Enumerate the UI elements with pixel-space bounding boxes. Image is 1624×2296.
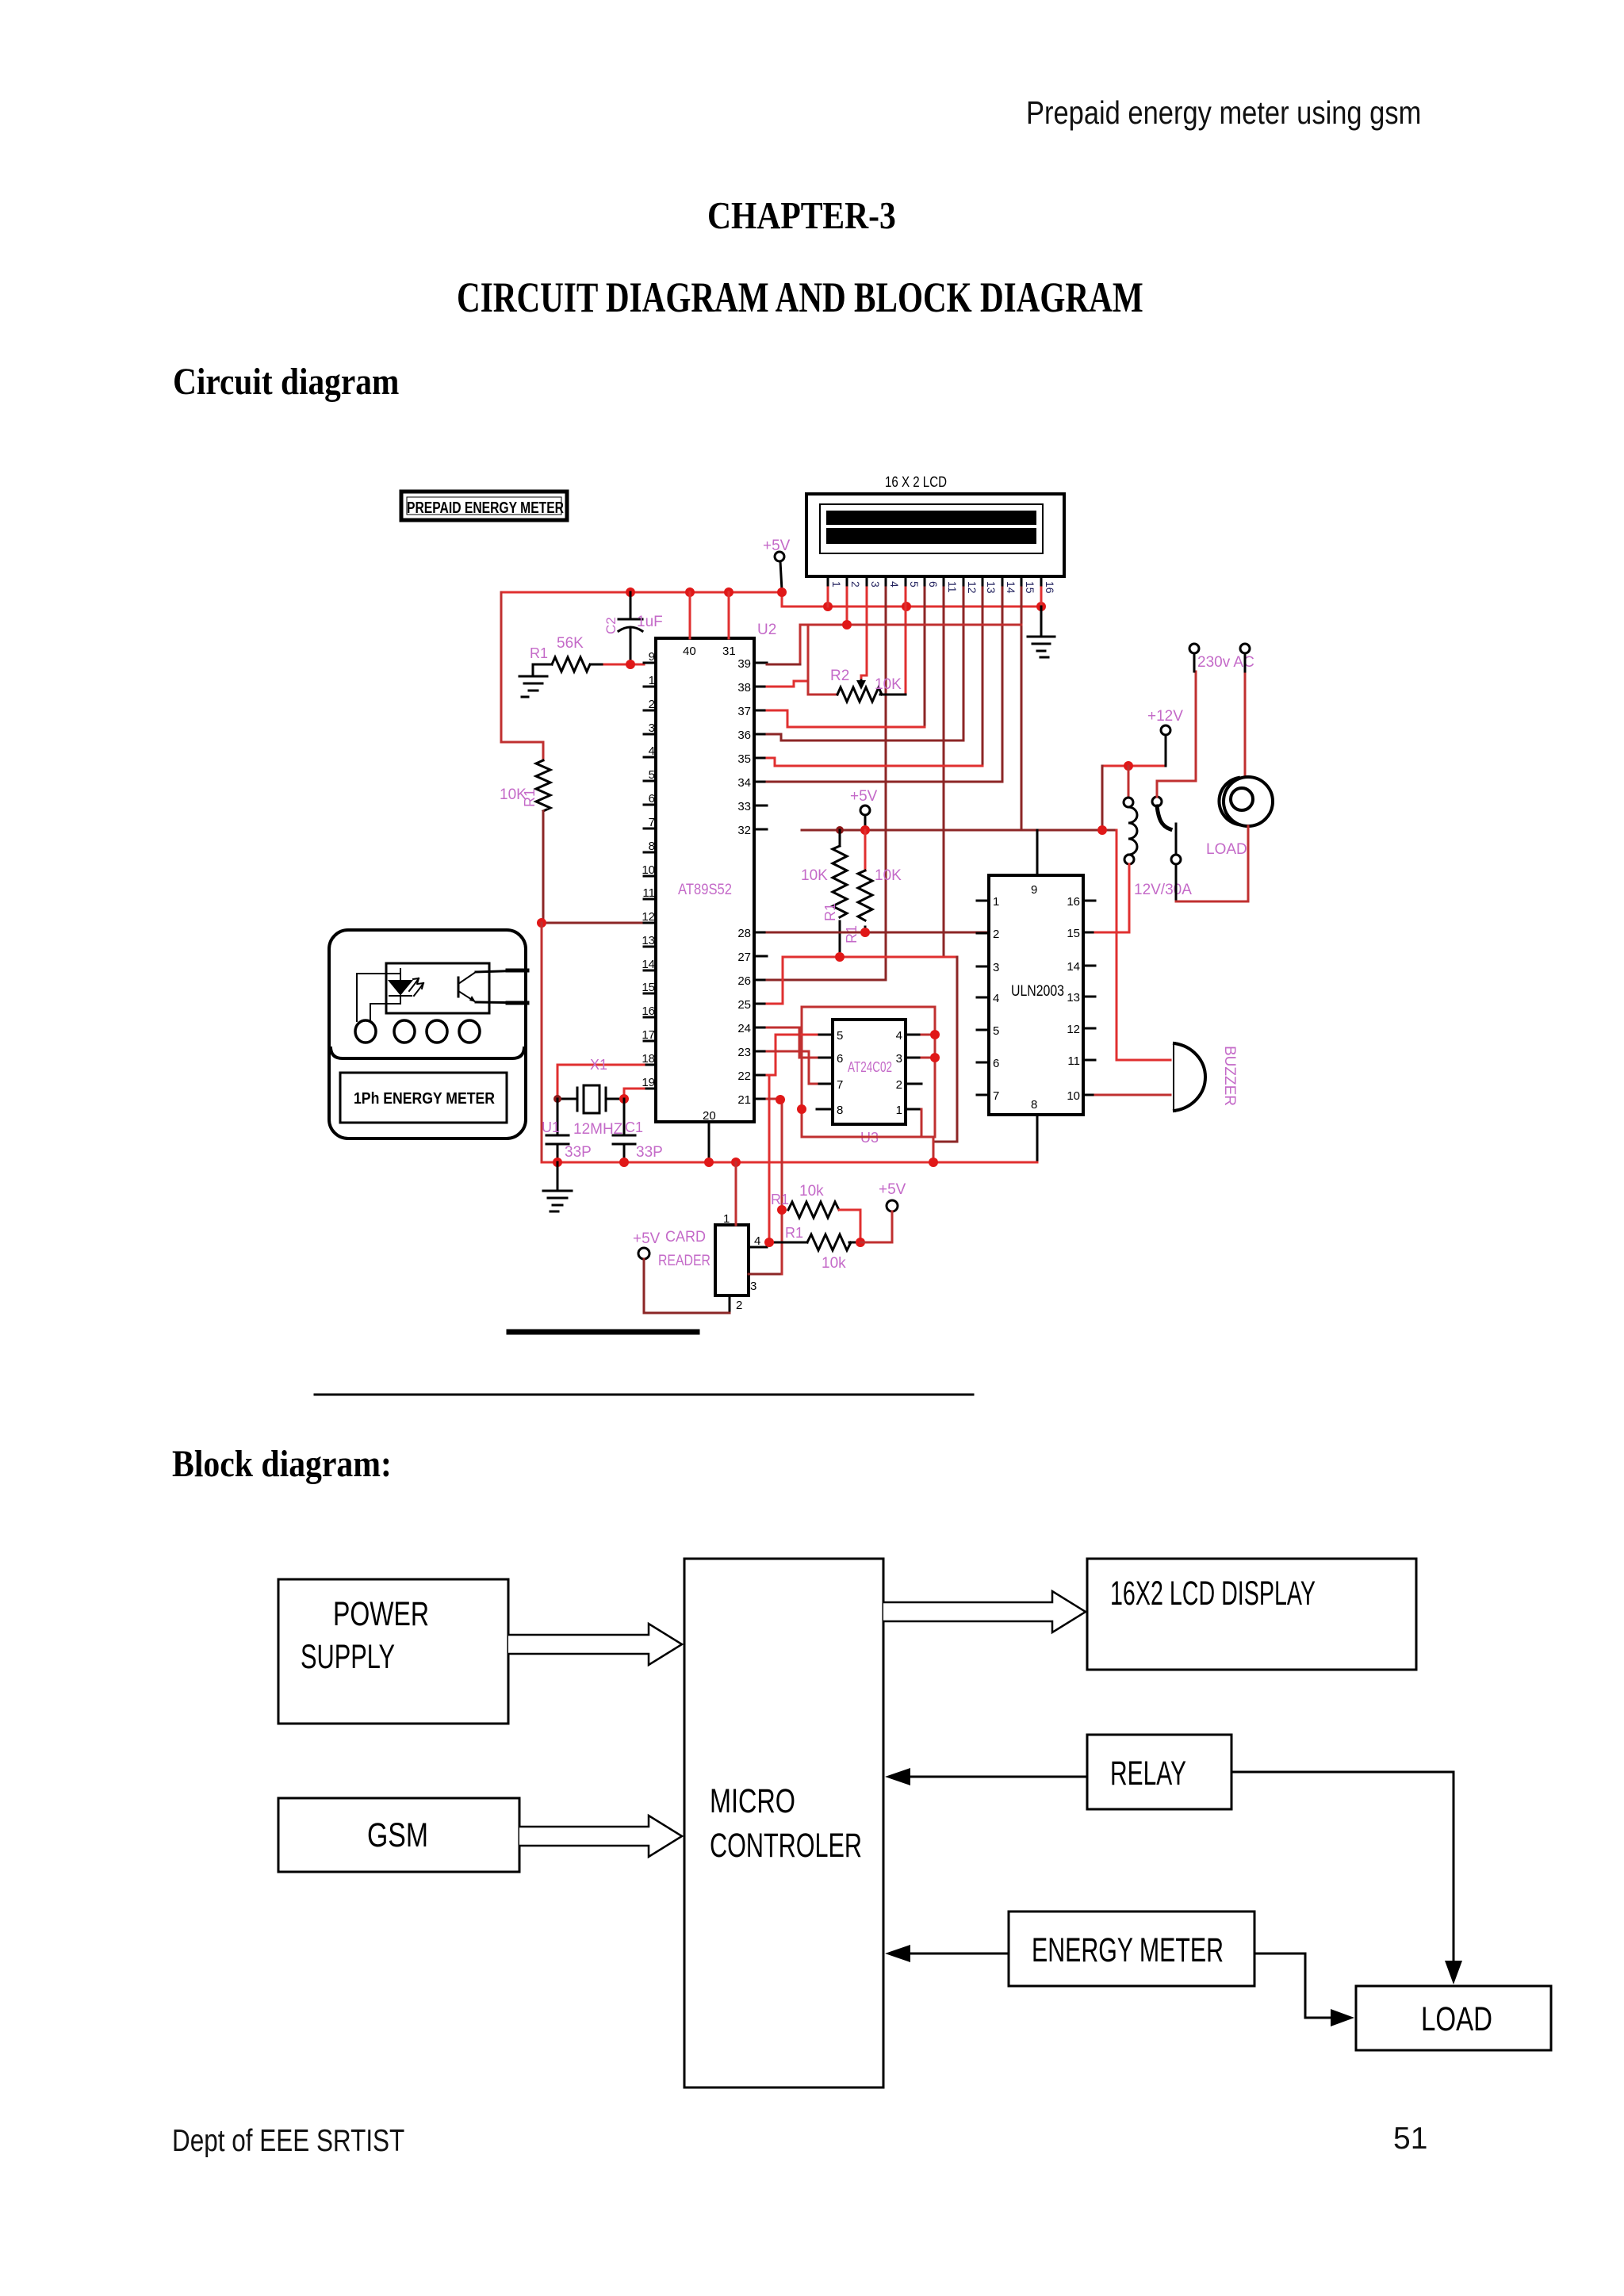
svg-text:24: 24 bbox=[737, 1022, 751, 1035]
ULN pin9 stub bbox=[1036, 830, 1039, 875]
wire lcd pin6 column bbox=[924, 587, 926, 727]
svg-text:14: 14 bbox=[1067, 960, 1080, 974]
16x2 LCD display U3 bbox=[806, 474, 1064, 576]
svg-text:LOAD: LOAD bbox=[1421, 2000, 1492, 2038]
svg-text:X1: X1 bbox=[590, 1057, 607, 1073]
svg-text:9: 9 bbox=[649, 650, 655, 664]
node dot bus3 pin2 bbox=[842, 620, 852, 629]
node dot cap/R1 junction bbox=[626, 660, 635, 669]
svg-text:ULN2003: ULN2003 bbox=[1011, 983, 1064, 1000]
wire pin38 path bbox=[767, 681, 808, 687]
node dots eeprom loop bbox=[930, 1030, 940, 1039]
svg-text:+5V: +5V bbox=[633, 1230, 661, 1247]
svg-text:2: 2 bbox=[649, 698, 655, 711]
svg-text:15: 15 bbox=[1024, 581, 1036, 594]
svg-text:R1: R1 bbox=[822, 903, 838, 921]
svg-text:6: 6 bbox=[993, 1057, 999, 1070]
wire ground bus bottom bbox=[542, 1161, 1037, 1164]
svg-text:1uF: 1uF bbox=[637, 614, 663, 630]
AT24C02 right pin stubs bbox=[906, 1035, 921, 1109]
AT24C02 left pin stubs bbox=[817, 1035, 833, 1109]
wire eeprom row drop bbox=[935, 957, 957, 1142]
ground under 56K bbox=[519, 664, 547, 697]
svg-text:23: 23 bbox=[737, 1046, 751, 1059]
LCD pin stubs and numbers bbox=[828, 576, 1041, 587]
resistor 10K pullup left bbox=[839, 830, 841, 846]
svg-text:8: 8 bbox=[649, 840, 655, 853]
svg-text:1: 1 bbox=[830, 581, 843, 587]
svg-text:+5V: +5V bbox=[850, 788, 878, 805]
svg-text:14: 14 bbox=[642, 958, 655, 971]
svg-text:1: 1 bbox=[993, 895, 999, 909]
svg-text:POWER: POWER bbox=[333, 1595, 429, 1633]
svg-text:15: 15 bbox=[1067, 927, 1080, 940]
resistor R1 10k upper bbox=[788, 1202, 839, 1218]
block diagram heading bbox=[172, 1442, 392, 1486]
svg-text:6: 6 bbox=[649, 792, 655, 806]
svg-text:38: 38 bbox=[737, 681, 751, 695]
BLOCK DIAGRAM bbox=[278, 1559, 1551, 2087]
ground under lcd pin16 bbox=[1028, 607, 1055, 657]
separator thin line bbox=[315, 1394, 973, 1396]
svg-text:5: 5 bbox=[908, 581, 921, 587]
svg-text:CARD: CARD bbox=[665, 1229, 706, 1246]
chapter heading bbox=[707, 193, 896, 238]
svg-text:RELAY: RELAY bbox=[1110, 1755, 1186, 1793]
svg-text:34: 34 bbox=[737, 776, 751, 790]
svg-text:R2: R2 bbox=[830, 668, 849, 684]
svg-text:2: 2 bbox=[849, 581, 862, 587]
svg-text:AT24C02: AT24C02 bbox=[848, 1059, 892, 1075]
wire lcd pin1 column bbox=[827, 587, 829, 607]
wire upper 10k to junction bbox=[839, 1210, 860, 1242]
svg-text:16: 16 bbox=[1044, 581, 1056, 594]
svg-text:11: 11 bbox=[1067, 1054, 1080, 1068]
svg-text:3: 3 bbox=[869, 581, 882, 587]
node dot upper 10k left bbox=[777, 1205, 787, 1215]
svg-text:10K: 10K bbox=[875, 867, 902, 884]
svg-text:9: 9 bbox=[1031, 883, 1037, 897]
node junction dots on bus1 bbox=[626, 587, 787, 597]
svg-text:MICRO: MICRO bbox=[710, 1782, 795, 1820]
+5V terminal near LCD bbox=[763, 538, 791, 590]
wire eeprom loop rectangle bbox=[802, 1007, 935, 1137]
wire eeprom pin1 link bbox=[921, 1109, 923, 1137]
svg-text:2: 2 bbox=[736, 1299, 742, 1312]
svg-text:4: 4 bbox=[896, 1029, 902, 1043]
wire lcd pin11 column bbox=[943, 587, 945, 957]
svg-text:1: 1 bbox=[723, 1212, 730, 1226]
svg-text:13: 13 bbox=[1067, 991, 1080, 1004]
wire relay feed drop bbox=[1101, 766, 1104, 830]
node junction dots on bus2 bbox=[823, 602, 1046, 611]
svg-text:2: 2 bbox=[993, 928, 999, 941]
svg-text:6: 6 bbox=[927, 581, 940, 587]
svg-text:R1: R1 bbox=[522, 789, 538, 807]
capacitor C1 33P right bbox=[613, 1099, 635, 1162]
svg-text:37: 37 bbox=[737, 705, 751, 718]
svg-text:10K: 10K bbox=[875, 676, 902, 693]
microcontroller U2 AT89S52 body bbox=[656, 638, 754, 1122]
wire lcd pin3 column to pot wiper bbox=[861, 587, 867, 680]
wire +5V to 10k junction bbox=[860, 1211, 892, 1242]
wire eeprom pin5 to pin22 bbox=[767, 1035, 817, 1075]
wire +5V row to ULN pin9 bbox=[802, 829, 1116, 832]
wire pin25 riser bbox=[767, 957, 783, 1004]
wire bus3 row bbox=[800, 625, 1021, 664]
svg-text:8: 8 bbox=[837, 1104, 843, 1117]
relay coil bbox=[1124, 766, 1137, 864]
svg-text:16X2 LCD DISPLAY: 16X2 LCD DISPLAY bbox=[1110, 1575, 1316, 1613]
svg-text:7: 7 bbox=[993, 1089, 999, 1103]
wire buzzer feed drop bbox=[1116, 830, 1170, 1060]
svg-text:11: 11 bbox=[642, 886, 655, 900]
relay switch bbox=[1152, 797, 1181, 901]
relay box bbox=[1087, 1735, 1231, 1809]
svg-text:R1: R1 bbox=[785, 1225, 803, 1241]
optocoupler led bbox=[389, 969, 412, 1004]
resistor R1 10k lower bbox=[807, 1234, 851, 1250]
arrow relay to load bbox=[1231, 1772, 1454, 1963]
optocoupler transistor bbox=[458, 972, 476, 1002]
svg-text:19: 19 bbox=[642, 1076, 655, 1089]
resistor R1 10K vertical left bbox=[536, 760, 550, 811]
card reader pin1 bbox=[735, 1162, 737, 1225]
svg-text:8: 8 bbox=[1031, 1098, 1037, 1112]
svg-text:AT89S52: AT89S52 bbox=[678, 882, 732, 898]
wire pin12 row bbox=[540, 922, 644, 924]
sub heading bbox=[173, 360, 399, 404]
svg-text:31: 31 bbox=[722, 645, 736, 658]
svg-text:26: 26 bbox=[737, 974, 751, 988]
card reader pin2 stub bbox=[729, 1295, 731, 1313]
svg-text:12: 12 bbox=[1067, 1023, 1080, 1036]
energy meter box bbox=[1009, 1911, 1254, 1986]
node dot pin28 pullup bbox=[860, 928, 870, 937]
svg-text:LOAD: LOAD bbox=[1206, 841, 1247, 858]
arrow energy meter to micro bbox=[908, 1953, 1009, 1955]
block arrow gsm to micro bbox=[519, 1816, 682, 1857]
arrow relay to micro bbox=[908, 1776, 1087, 1778]
svg-text:U2: U2 bbox=[757, 622, 776, 638]
svg-text:16 X 2 LCD: 16 X 2 LCD bbox=[885, 474, 947, 490]
block arrow micro to lcd bbox=[883, 1591, 1086, 1632]
svg-text:16: 16 bbox=[642, 1004, 655, 1018]
svg-text:40: 40 bbox=[683, 645, 696, 658]
svg-text:BUZZER: BUZZER bbox=[1221, 1046, 1238, 1106]
card reader pin4 stub bbox=[749, 1246, 767, 1249]
svg-text:3: 3 bbox=[993, 961, 999, 974]
wire pot left riser bbox=[808, 625, 837, 695]
svg-text:6: 6 bbox=[837, 1052, 843, 1066]
arrow energy meter to load bbox=[1254, 1954, 1333, 2018]
ULN left pin stubs bbox=[977, 901, 989, 1095]
card reader pin3 stub bbox=[749, 1273, 782, 1276]
lcd display box bbox=[1087, 1559, 1416, 1670]
svg-text:C2: C2 bbox=[603, 617, 619, 634]
node dot pin21 bbox=[776, 1095, 785, 1104]
node dot pin12 junction bbox=[537, 918, 546, 928]
wire lcd pin2 column bbox=[846, 587, 848, 625]
wire lcd pin16 column bbox=[1040, 587, 1043, 607]
wire meter drop bbox=[541, 923, 543, 1162]
svg-text:14: 14 bbox=[1005, 581, 1017, 594]
svg-text:10: 10 bbox=[642, 863, 655, 877]
svg-text:12: 12 bbox=[966, 581, 979, 594]
wire eeprom loop to bus bbox=[933, 1137, 935, 1162]
wire vcc bus1 bbox=[501, 591, 782, 594]
svg-text:+12V: +12V bbox=[1147, 708, 1183, 725]
energy meter case divider bbox=[331, 1048, 524, 1058]
energy meter label box bbox=[340, 1073, 507, 1123]
lamp LOAD bbox=[1224, 777, 1273, 826]
wire pin9 row bbox=[604, 664, 644, 666]
node dot crystal right bbox=[619, 1094, 629, 1104]
card reader box bbox=[715, 1225, 749, 1295]
wire 10K to pin12 bbox=[542, 811, 545, 923]
header running title bbox=[1026, 94, 1421, 132]
svg-text:1Ph ENERGY METER: 1Ph ENERGY METER bbox=[354, 1090, 495, 1108]
wire lcd pin5 column bbox=[905, 587, 907, 695]
svg-text:18: 18 bbox=[642, 1052, 655, 1066]
optocoupler output wires bbox=[476, 970, 527, 972]
svg-text:4: 4 bbox=[888, 581, 901, 587]
ground symbol below bus bbox=[543, 1162, 572, 1211]
svg-text:3: 3 bbox=[750, 1280, 756, 1293]
potentiometer R2 10K bbox=[837, 687, 882, 702]
wire 230v to lamp bbox=[1244, 674, 1247, 777]
power supply box bbox=[278, 1579, 508, 1724]
svg-text:10k: 10k bbox=[799, 1183, 824, 1200]
svg-text:5: 5 bbox=[649, 768, 655, 782]
block arrow power supply to micro bbox=[508, 1624, 682, 1665]
svg-text:4: 4 bbox=[649, 744, 655, 758]
optocoupler box bbox=[386, 963, 489, 1013]
svg-text:5: 5 bbox=[993, 1024, 999, 1038]
svg-text:35: 35 bbox=[737, 752, 751, 766]
energy meter terminals bbox=[355, 1020, 480, 1043]
svg-text:4: 4 bbox=[993, 992, 999, 1005]
svg-text:32: 32 bbox=[737, 824, 751, 837]
wire lcd pin12 column bbox=[963, 587, 965, 740]
optocoupler light arrows bbox=[409, 978, 423, 996]
wire pin37 path bbox=[767, 710, 925, 727]
node dots lower 10k bbox=[764, 1238, 774, 1247]
svg-text:16: 16 bbox=[1067, 895, 1080, 909]
U2 right pin stubs bbox=[754, 663, 767, 1099]
svg-text:33: 33 bbox=[737, 800, 751, 813]
wire pin36 path bbox=[767, 734, 963, 740]
wire relay feed row bbox=[1102, 765, 1166, 767]
wire eeprom pin4 link bbox=[921, 1034, 935, 1036]
svg-text:7: 7 bbox=[649, 816, 655, 829]
svg-text:1: 1 bbox=[649, 674, 655, 687]
micro controller box bbox=[684, 1559, 883, 2087]
svg-text:C1: C1 bbox=[625, 1119, 643, 1135]
energy meter outer case bbox=[329, 930, 526, 1138]
wire pin18 to crystal bbox=[557, 1065, 644, 1099]
svg-text:12: 12 bbox=[642, 910, 655, 924]
wire pin34 path bbox=[767, 781, 1002, 783]
wire eeprom pin6 to pin24 bbox=[767, 1027, 817, 1058]
svg-text:17: 17 bbox=[642, 1028, 655, 1042]
node dots on ground bus bbox=[553, 1158, 562, 1167]
footer bbox=[172, 2124, 404, 2159]
svg-text:7: 7 bbox=[837, 1078, 843, 1092]
svg-text:13: 13 bbox=[642, 934, 655, 947]
svg-text:3: 3 bbox=[649, 721, 655, 735]
node dots on +5V row bbox=[836, 826, 844, 834]
svg-text:R1: R1 bbox=[530, 645, 548, 661]
wire eeprom pin7 to pin23 bbox=[767, 1051, 817, 1084]
svg-text:10: 10 bbox=[1067, 1089, 1080, 1103]
svg-text:25: 25 bbox=[737, 998, 751, 1012]
svg-text:56K: 56K bbox=[557, 635, 584, 652]
SCHEMATIC bbox=[315, 474, 1273, 1395]
wire pin35 path bbox=[767, 758, 982, 766]
svg-text:13: 13 bbox=[985, 581, 998, 594]
svg-text:33P: 33P bbox=[565, 1144, 592, 1161]
wire +5V to card reader pin2 bbox=[644, 1259, 730, 1313]
buzzer bbox=[1174, 1043, 1205, 1111]
wire pin39 row bbox=[767, 664, 800, 666]
svg-text:21: 21 bbox=[737, 1093, 751, 1107]
svg-text:33P: 33P bbox=[636, 1144, 663, 1161]
node dot relay feed bbox=[1124, 761, 1133, 771]
node dot eeprom row bbox=[835, 952, 845, 962]
svg-text:ENERGY METER: ENERGY METER bbox=[1032, 1931, 1224, 1969]
load box bbox=[1356, 1986, 1551, 2050]
eeprom U3 AT24C02 body bbox=[833, 1020, 906, 1124]
driver U4 ULN2003 body bbox=[989, 875, 1083, 1115]
optocoupler input wires bbox=[357, 974, 400, 1021]
wire lamp bottom loop bbox=[1176, 826, 1248, 901]
svg-text:20: 20 bbox=[703, 1109, 716, 1123]
svg-text:28: 28 bbox=[737, 927, 751, 940]
U2 right pin numbers bbox=[737, 657, 751, 1107]
U2 top pins 40 31 bbox=[689, 592, 691, 638]
wire vcc bus2 bbox=[782, 592, 1041, 607]
svg-text:R1: R1 bbox=[771, 1192, 789, 1207]
wire pin22 drop bbox=[767, 1075, 769, 1242]
svg-text:10k: 10k bbox=[822, 1255, 846, 1272]
wire ULN pin10 to buzzer bbox=[1095, 1094, 1170, 1096]
svg-text:22: 22 bbox=[737, 1070, 751, 1083]
svg-text:PREPAID ENERGY METER: PREPAID ENERGY METER bbox=[407, 499, 564, 517]
wire lcd pin4 column bbox=[767, 587, 886, 980]
svg-text:2: 2 bbox=[896, 1078, 902, 1092]
svg-text:15: 15 bbox=[642, 981, 655, 994]
node dot crystal left bbox=[553, 1095, 561, 1103]
svg-text:10K: 10K bbox=[801, 867, 828, 884]
svg-text:R1: R1 bbox=[844, 925, 860, 943]
separator thick line bbox=[509, 1330, 697, 1335]
svg-text:+5V: +5V bbox=[879, 1181, 906, 1198]
svg-text:12V/30A: 12V/30A bbox=[1134, 882, 1192, 898]
wire eeprom pin3 link bbox=[921, 1057, 935, 1059]
U2 left pin stubs bbox=[644, 663, 656, 1089]
U2 pin20 bottom stub bbox=[708, 1122, 710, 1162]
title box PREPAID ENERGY METER bbox=[401, 492, 567, 520]
svg-text:4: 4 bbox=[754, 1234, 760, 1248]
ULN right pin stubs bbox=[1083, 901, 1095, 1095]
svg-text:5: 5 bbox=[837, 1029, 843, 1043]
svg-text:CONTROLER: CONTROLER bbox=[710, 1827, 862, 1865]
capacitor C2 33P left bbox=[546, 1099, 569, 1162]
svg-text:U1: U1 bbox=[542, 1119, 560, 1135]
svg-text:3: 3 bbox=[896, 1052, 902, 1066]
resistor R1 56K bbox=[552, 657, 590, 672]
wire pin21 drop bbox=[767, 1099, 782, 1274]
wire pin28 row to ULN pin2 bbox=[767, 932, 989, 934]
ULN pin8 stub bbox=[1036, 1115, 1039, 1162]
svg-text:39: 39 bbox=[737, 657, 751, 671]
svg-text:READER: READER bbox=[658, 1253, 710, 1269]
wire lcd pin13 column bbox=[982, 587, 984, 766]
gsm box bbox=[278, 1798, 519, 1872]
svg-text:SUPPLY: SUPPLY bbox=[301, 1638, 395, 1676]
section heading bbox=[457, 273, 1143, 322]
wire lcd pin15 column bbox=[1021, 587, 1023, 830]
svg-text:27: 27 bbox=[737, 951, 751, 964]
svg-text:11: 11 bbox=[946, 581, 959, 593]
wire lcd pin14 column bbox=[1002, 587, 1004, 782]
U2 left pin numbers bbox=[642, 650, 655, 1089]
svg-text:GSM: GSM bbox=[367, 1816, 428, 1854]
wire switch to 230v bbox=[1157, 672, 1196, 797]
resistor 10K pullup right bbox=[864, 830, 867, 871]
svg-text:1: 1 bbox=[896, 1104, 902, 1117]
wire left vcc drop to 10K bbox=[501, 592, 543, 760]
wire pin19 to crystal bbox=[624, 1089, 644, 1099]
relay coil to ULN pin15 bbox=[1095, 864, 1129, 932]
capacitor C2 1uF bbox=[619, 592, 642, 664]
wire eeprom row bbox=[783, 956, 957, 959]
svg-text:36: 36 bbox=[737, 729, 751, 742]
